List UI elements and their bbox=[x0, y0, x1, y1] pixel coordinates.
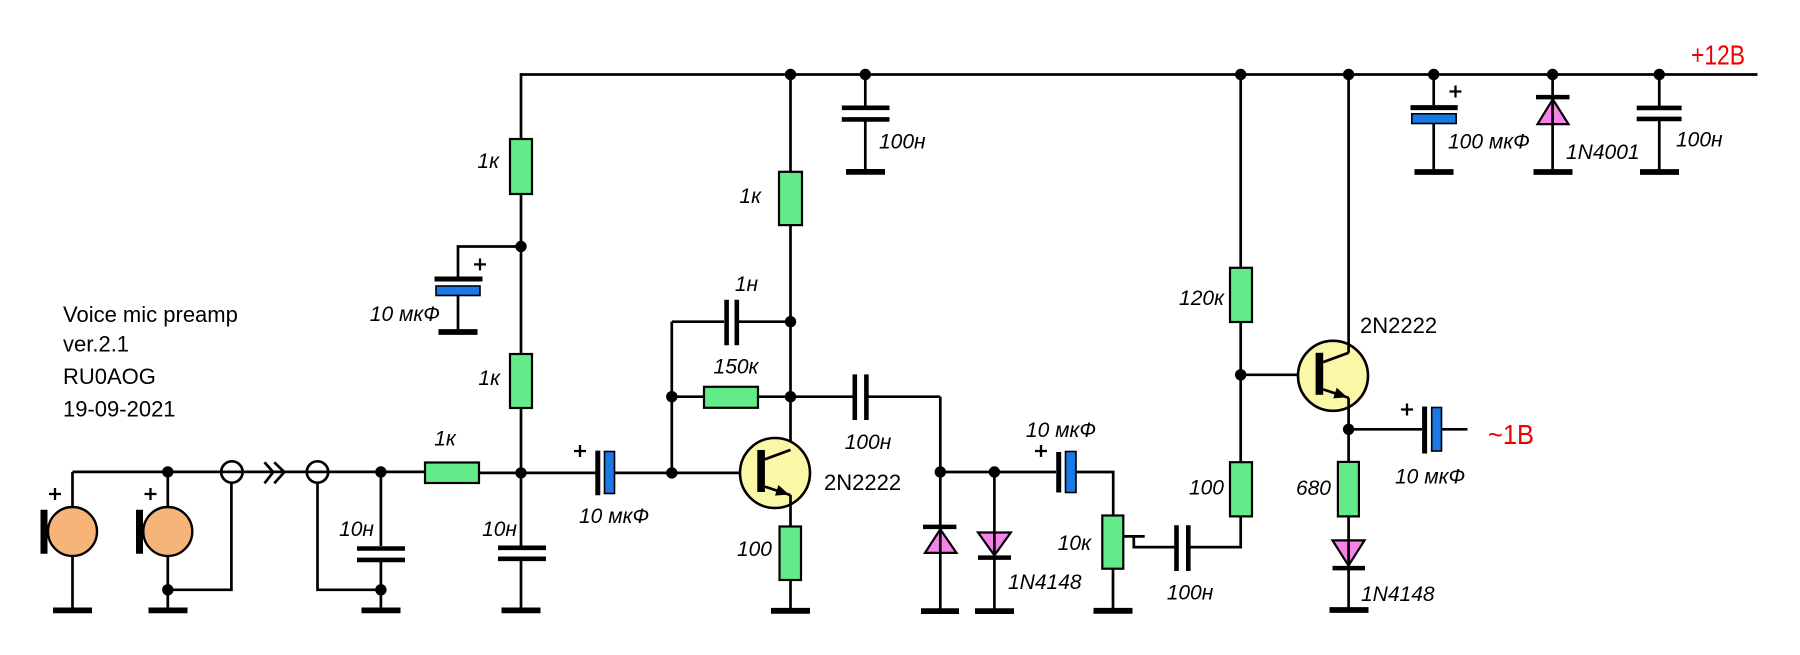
resistor R1 1k top bbox=[510, 139, 532, 194]
capacitor C4 10uF series electrolytic bbox=[595, 451, 600, 496]
svg-text:100н: 100н bbox=[879, 131, 926, 154]
wire feedback vertical bbox=[670, 322, 673, 473]
svg-text:10 мкФ: 10 мкФ bbox=[1395, 466, 1465, 489]
plus sign C1 bbox=[474, 258, 486, 270]
svg-text:10 мкФ: 10 мкФ bbox=[1026, 419, 1096, 442]
svg-text:10 мкФ: 10 мкФ bbox=[370, 303, 440, 326]
resistor R3 1k series bbox=[425, 463, 479, 484]
connector J2 pin bbox=[307, 461, 328, 482]
svg-text:~1В: ~1В bbox=[1488, 419, 1534, 450]
wire R7 to ground bbox=[1112, 569, 1115, 611]
potentiometer R7 10k bbox=[1102, 516, 1123, 569]
node dot rail x1659 bbox=[1654, 69, 1665, 80]
node dot rail x1553 bbox=[1547, 69, 1558, 80]
ground MIC2 bbox=[149, 608, 188, 614]
resistor R6 1k collector bbox=[779, 172, 802, 225]
wire R5 to ground bbox=[789, 580, 792, 611]
diode D4 1N4001 bbox=[1551, 75, 1554, 96]
resistor R8 100 bbox=[1230, 462, 1252, 516]
svg-text:680: 680 bbox=[1296, 477, 1331, 500]
svg-text:150к: 150к bbox=[714, 356, 760, 379]
svg-text:Voice mic preamp: Voice mic preamp bbox=[63, 302, 238, 327]
node dot rail x1348 bbox=[1343, 69, 1354, 80]
node dot collector/1n bbox=[785, 316, 796, 327]
wire C5 to collector bbox=[739, 320, 791, 323]
capacitor C3 10n bbox=[380, 472, 383, 546]
ground C3 bbox=[362, 608, 401, 614]
wire out run bbox=[940, 471, 1056, 474]
ground C1 bbox=[439, 329, 478, 335]
transistor Q2 2N2222 bbox=[1298, 341, 1368, 411]
ground MIC1 bbox=[53, 608, 92, 614]
wire Q1 collector vertical bbox=[789, 75, 792, 450]
svg-text:1N4001: 1N4001 bbox=[1566, 141, 1640, 164]
wire C4 to Q1 base bbox=[615, 472, 758, 475]
svg-text:100: 100 bbox=[1189, 477, 1224, 500]
svg-text:1N4148: 1N4148 bbox=[1008, 571, 1082, 594]
node dot D2 bbox=[989, 466, 1000, 477]
capacitor C9 100n bbox=[1174, 525, 1179, 571]
ground C12 bbox=[1640, 169, 1679, 175]
node dot rail x1241 bbox=[1235, 69, 1246, 80]
capacitor C7 100n interstage bbox=[791, 395, 853, 398]
ground R7 bbox=[1094, 608, 1133, 614]
wire C8 to R7 bbox=[1077, 472, 1114, 516]
plus sign C8 bbox=[1035, 445, 1047, 457]
capacitor C12 100n rail right bbox=[1658, 75, 1661, 107]
capacitor C1 10uF electrolytic bbox=[435, 277, 483, 282]
ground D4 bbox=[1534, 169, 1573, 175]
svg-text:100н: 100н bbox=[1676, 129, 1723, 152]
capacitor C8 10uF series electrolytic bbox=[1056, 452, 1061, 493]
transistor Q1 2N2222 bbox=[740, 438, 810, 508]
node dot rail x1434 bbox=[1428, 69, 1439, 80]
svg-text:2N2222: 2N2222 bbox=[824, 470, 901, 495]
ground R5 bbox=[771, 608, 810, 614]
diode D3 1N4148 down bbox=[1333, 540, 1365, 565]
capacitor C2 10n bbox=[498, 545, 546, 550]
plus sign C10 bbox=[1401, 404, 1413, 416]
node dot feedback/150k bbox=[666, 391, 677, 402]
node dot MIC2 top bbox=[162, 466, 173, 477]
svg-text:ver.2.1: ver.2.1 bbox=[63, 332, 129, 357]
wire R4 to collector node bbox=[758, 395, 791, 398]
connector chevron bbox=[265, 462, 274, 483]
node dot collector/150k bbox=[785, 391, 796, 402]
wire J2 shield down bbox=[318, 483, 381, 590]
node dot rail x865 bbox=[860, 69, 871, 80]
node dot R1/R2 junction bbox=[515, 241, 526, 252]
plus sign C11 bbox=[1450, 86, 1462, 98]
capacitor C10 10uF output bbox=[1422, 407, 1427, 454]
svg-text:1N4148: 1N4148 bbox=[1361, 583, 1435, 606]
node dot Q2 base bbox=[1235, 369, 1246, 380]
svg-text:1к: 1к bbox=[477, 150, 500, 173]
wire C7 out corner down bbox=[939, 397, 942, 472]
resistor R5 100 emitter bbox=[780, 527, 802, 581]
node dot signal/divider junction bbox=[515, 467, 526, 478]
svg-text:1к: 1к bbox=[434, 428, 457, 451]
svg-text:10к: 10к bbox=[1058, 532, 1092, 555]
capacitor C5 1n bbox=[724, 300, 729, 345]
ground C11 bbox=[1415, 169, 1454, 175]
microphone MIC2 bbox=[166, 472, 169, 507]
ground D3 bbox=[1330, 607, 1369, 613]
node dot C3 bottom bbox=[375, 584, 386, 595]
wire divider chain x521 bbox=[520, 194, 523, 548]
wire Q2 collector bbox=[1347, 75, 1350, 353]
svg-text:100 мкФ: 100 мкФ bbox=[1448, 131, 1530, 154]
ground D1 bbox=[921, 608, 959, 614]
svg-text:1н: 1н bbox=[735, 273, 759, 296]
svg-text:19-09-2021: 19-09-2021 bbox=[63, 397, 176, 422]
node dot C3 top bbox=[375, 466, 386, 477]
ground D2 bbox=[975, 608, 1014, 614]
node dot rail x790 bbox=[785, 69, 796, 80]
wire Q2 emitter bbox=[1347, 398, 1350, 462]
wire feedback top to C5 bbox=[672, 320, 724, 323]
svg-text:10н: 10н bbox=[482, 518, 517, 541]
wire Q1 emitter bbox=[789, 495, 792, 526]
node dot D1 bbox=[935, 466, 946, 477]
resistor R9 120k bbox=[1230, 268, 1252, 322]
svg-text:1к: 1к bbox=[739, 185, 762, 208]
wire MIC2 shield to connector J1 bbox=[168, 483, 232, 590]
wire R3 to C4 bbox=[479, 472, 596, 475]
wire input line bbox=[73, 471, 426, 474]
svg-text:RU0AOG: RU0AOG bbox=[63, 364, 156, 389]
wire C9 to R8 bbox=[1191, 516, 1241, 547]
wire Q2 base bbox=[1241, 373, 1316, 376]
node dot Q2 emitter bbox=[1343, 424, 1354, 435]
svg-text:100: 100 bbox=[737, 538, 772, 561]
resistor R2 1k bbox=[510, 354, 532, 408]
wire to R4 bbox=[672, 395, 704, 398]
capacitor C6 100n rail bypass bbox=[864, 75, 867, 107]
resistor R4 150k bbox=[704, 387, 758, 408]
wire +12V rail bbox=[521, 75, 1758, 141]
plus sign MIC1 bbox=[49, 488, 61, 500]
svg-text:120к: 120к bbox=[1179, 287, 1225, 310]
wire rail to R9 bbox=[1239, 75, 1242, 268]
svg-text:2N2222: 2N2222 bbox=[1360, 313, 1437, 338]
svg-text:10 мкФ: 10 мкФ bbox=[579, 505, 649, 528]
microphone MIC1 bbox=[71, 472, 74, 507]
diode D2 1N4148 down bbox=[993, 472, 996, 533]
ground C6 bbox=[846, 169, 885, 175]
wire emitter to C10 bbox=[1349, 428, 1422, 431]
plus sign C4 bbox=[574, 445, 586, 457]
svg-text:100н: 100н bbox=[1167, 582, 1214, 605]
wire to C1 bbox=[458, 247, 521, 277]
diode D1 1N4148 up bbox=[939, 472, 942, 525]
plus sign MIC2 bbox=[145, 488, 157, 500]
wire R9 to R8 bbox=[1239, 322, 1242, 462]
svg-text:10н: 10н bbox=[339, 518, 374, 541]
resistor R10 680 bbox=[1338, 462, 1359, 517]
node dot MIC2 bottom bbox=[162, 584, 173, 595]
connector J1 pin bbox=[221, 461, 242, 482]
ground C2 bbox=[502, 608, 541, 614]
svg-text:+12В: +12В bbox=[1691, 40, 1745, 71]
svg-text:100н: 100н bbox=[845, 431, 892, 454]
svg-text:1к: 1к bbox=[478, 367, 501, 390]
capacitor C11 100uF rail bbox=[1432, 75, 1435, 106]
node dot Q1 base bbox=[666, 467, 677, 478]
wire R10 to D3 bbox=[1347, 516, 1350, 540]
